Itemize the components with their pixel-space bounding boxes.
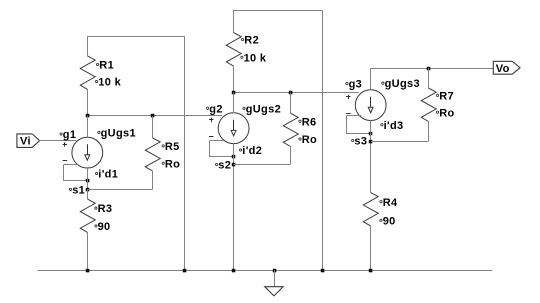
- resistor R2: [226, 10, 241, 92]
- wire d3 to gUgs3 top: [370, 68, 372, 90]
- svg-text:gUgs1: gUgs1: [101, 128, 136, 140]
- wire d1 to gUgs1 top: [87, 116, 89, 138]
- node junction d2-R2: [232, 91, 236, 95]
- resistor R6: [283, 92, 298, 164]
- port Vi: [17, 134, 40, 148]
- node junction R4-ground: [369, 269, 373, 273]
- wire gUgs2 control loop: [210, 141, 234, 157]
- svg-text:R3: R3: [98, 203, 113, 215]
- wire top rail stage 1: [87, 36, 184, 38]
- svg-text:Ro: Ro: [302, 134, 317, 146]
- node junction return2-ground: [321, 269, 325, 273]
- label R5: [162, 141, 180, 153]
- label R7 value Ro: [436, 107, 454, 119]
- wire ground rail: [38, 270, 493, 272]
- wire drain node d2 horizontal: [233, 92, 358, 94]
- svg-text:g1: g1: [63, 129, 77, 141]
- label R4: [380, 197, 398, 209]
- resistor R7: [421, 68, 436, 141]
- resistor R1: [80, 36, 95, 115]
- label R3 value 90: [95, 221, 111, 233]
- label R4 value 90: [380, 215, 396, 227]
- wire gUgs1 minus stub: [64, 164, 78, 166]
- wire Vi to g1 (+ input): [40, 140, 77, 142]
- port Vo: [493, 61, 520, 75]
- resistor R4: [363, 192, 378, 270]
- wire gUgs2 minus stub: [210, 140, 224, 142]
- resistor R3: [80, 189, 95, 270]
- svg-text:g2: g2: [209, 103, 223, 115]
- node junction d1-R1: [86, 114, 90, 118]
- ground: [265, 270, 283, 296]
- node g3: [346, 79, 362, 91]
- node junction return1-ground: [183, 269, 187, 273]
- wire stage-1 supply return (vertical): [184, 36, 186, 270]
- svg-text:10 k: 10 k: [244, 52, 267, 64]
- svg-text:R4: R4: [383, 197, 398, 209]
- label R1 value 10 k: [96, 77, 122, 89]
- label i'd1: [96, 169, 119, 181]
- node junction d3-R7: [427, 67, 431, 71]
- label R3: [95, 203, 113, 215]
- svg-text:Vo: Vo: [496, 63, 510, 75]
- VCCS source gUgs3: [355, 90, 386, 121]
- wire drain node d1 horizontal: [87, 115, 222, 117]
- svg-text:R6: R6: [302, 116, 317, 128]
- plus-minus marks gUgs1: [63, 142, 67, 160]
- wire drain node d3 horizontal: [371, 68, 494, 70]
- wire gUgs3 bottom to R4: [370, 120, 372, 192]
- plus-minus marks gUgs3: [346, 95, 350, 114]
- svg-text:R7: R7: [439, 91, 454, 103]
- svg-text:R1: R1: [99, 60, 114, 72]
- VCCS source gUgs1: [72, 137, 103, 168]
- wire stage-2 supply return (vertical): [322, 10, 324, 270]
- svg-text:gUgs3: gUgs3: [385, 78, 420, 90]
- label gUgs3: [382, 78, 420, 90]
- label R5 value Ro: [162, 158, 180, 170]
- svg-text:gUgs2: gUgs2: [246, 104, 281, 116]
- svg-text:90: 90: [383, 215, 396, 227]
- svg-text:i'd2: i'd2: [242, 145, 262, 157]
- svg-text:Vi: Vi: [20, 136, 31, 148]
- plus-minus marks gUgs2: [209, 118, 213, 137]
- node junction d2-R6: [289, 91, 293, 95]
- node s1: [69, 185, 89, 197]
- wire s1 to R5 bottom: [87, 189, 152, 191]
- svg-text:Ro: Ro: [439, 107, 454, 119]
- wire gUgs1 control loop: [64, 165, 88, 181]
- label R7: [436, 91, 454, 103]
- node junction s2-ground: [232, 269, 236, 273]
- svg-text:g3: g3: [349, 79, 363, 91]
- svg-text:s3: s3: [354, 136, 367, 148]
- svg-text:i'd1: i'd1: [98, 169, 118, 181]
- node junction d1-R5: [151, 114, 155, 118]
- svg-text:90: 90: [98, 221, 111, 233]
- wire gUgs3 minus stub: [347, 115, 361, 117]
- wire gUgs2 bottom to ground: [233, 144, 235, 271]
- node s3: [352, 136, 373, 148]
- svg-text:i'd3: i'd3: [384, 120, 404, 132]
- wire d2 to gUgs2 top: [233, 92, 235, 113]
- VCCS source gUgs2: [218, 113, 249, 144]
- label R2: [242, 35, 260, 47]
- svg-text:s2: s2: [218, 160, 231, 172]
- svg-text:s1: s1: [72, 185, 85, 197]
- label gUgs2: [243, 104, 281, 116]
- wire gUgs3 control loop: [347, 116, 371, 134]
- wire top rail stage 2: [233, 10, 322, 12]
- node g2: [207, 103, 223, 115]
- node junction R3-ground: [86, 269, 90, 273]
- svg-text:R5: R5: [165, 141, 180, 153]
- node s2: [216, 160, 236, 172]
- node g1: [60, 129, 76, 141]
- node junction i'd2: [232, 155, 236, 159]
- label i'd2: [240, 145, 263, 157]
- wire gUgs1 bottom to s1: [87, 168, 89, 189]
- label R2 value 10 k: [241, 52, 267, 64]
- label gUgs1: [98, 128, 136, 140]
- label R6: [299, 116, 317, 128]
- svg-text:Ro: Ro: [165, 158, 180, 170]
- node junction ground-stub: [273, 269, 277, 273]
- svg-text:10 k: 10 k: [98, 77, 121, 89]
- label i'd3: [381, 120, 404, 132]
- node junction i'd1: [86, 179, 90, 183]
- svg-text:R2: R2: [244, 35, 259, 47]
- wire s3 to R7 bottom: [371, 141, 429, 143]
- node junction i'd3: [369, 132, 373, 136]
- resistor R5: [145, 116, 160, 190]
- label R1: [97, 60, 115, 72]
- wire s2 to R6 bottom: [234, 164, 291, 166]
- label R6 value Ro: [299, 134, 317, 146]
